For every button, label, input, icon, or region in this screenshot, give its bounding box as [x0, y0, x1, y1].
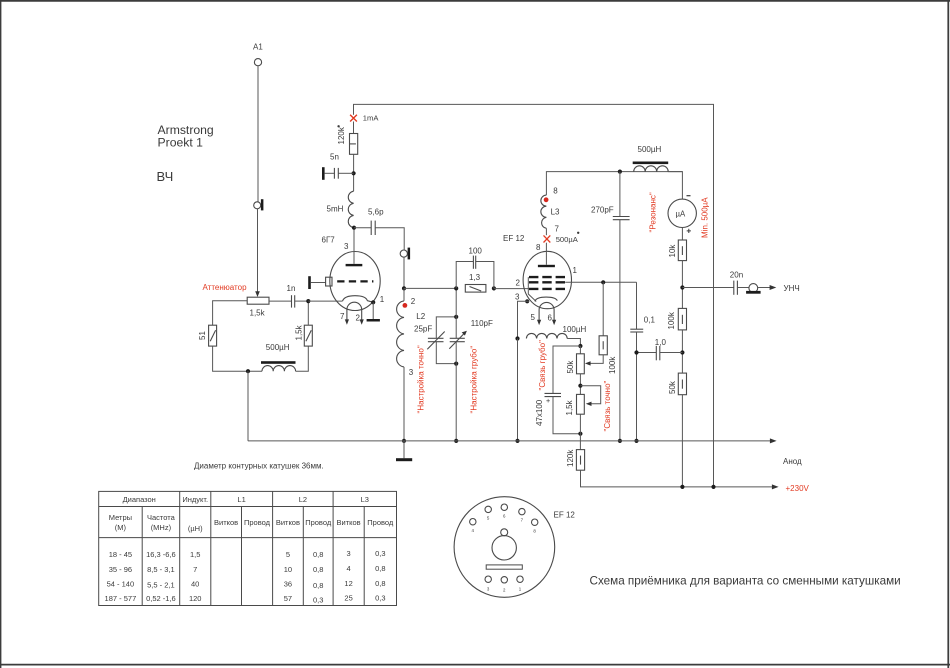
- svg-text:110pF: 110pF: [471, 319, 493, 328]
- svg-text:Частота: Частота: [147, 513, 176, 522]
- junction var caps bottom: [454, 362, 458, 366]
- svg-text:УНЧ: УНЧ: [784, 284, 800, 293]
- junction 5n node: [352, 171, 356, 175]
- wire 1,5k bottom through rail: [579, 414, 581, 449]
- svg-text:Витков: Витков: [337, 518, 361, 527]
- svg-text:1mA: 1mA: [363, 114, 380, 123]
- svg-text:5,6p: 5,6p: [368, 208, 384, 217]
- svg-text:51: 51: [198, 331, 207, 340]
- svg-text:Провод: Провод: [367, 518, 394, 527]
- socket pin 6: [501, 504, 507, 518]
- junction 110pF bottom on rail: [454, 439, 458, 443]
- wire coil to meter: [668, 172, 682, 200]
- svg-text:"Связь грубо": "Связь грубо": [538, 340, 547, 391]
- connector plug on L2 line: [400, 248, 410, 260]
- svg-text:Витков: Витков: [214, 518, 238, 527]
- svg-text:270pF: 270pF: [591, 206, 614, 215]
- svg-text:L1: L1: [237, 495, 245, 504]
- resistor R 100k (screen): [599, 336, 617, 374]
- svg-text:Провод: Провод: [305, 518, 332, 527]
- capacitor C 270pF: [591, 172, 630, 441]
- svg-text:1,5k: 1,5k: [295, 324, 304, 340]
- wire meter to 10k: [681, 228, 683, 241]
- svg-text:6Г7: 6Г7: [322, 236, 336, 245]
- connector plug on antenna line: [254, 199, 264, 210]
- top feed rail from 1mA point: [354, 104, 714, 487]
- svg-text:ВЧ: ВЧ: [157, 169, 174, 184]
- svg-text:10k: 10k: [668, 244, 677, 258]
- wire grid node to EF12: [494, 288, 529, 290]
- grid bracket of EF12: [528, 277, 536, 301]
- wire cathode node to tube: [308, 300, 342, 302]
- svg-text:Схема приёмника для варианта с: Схема приёмника для варианта со сменными…: [590, 575, 901, 588]
- svg-text:50k: 50k: [566, 360, 575, 374]
- wire pin1 node down to screen resistor: [602, 282, 604, 336]
- junction 0,1 top corner node: [601, 280, 605, 284]
- capacitor C 47x100 electrolytic: [535, 393, 561, 426]
- svg-text:16,3 -6,6: 16,3 -6,6: [146, 550, 176, 559]
- wire 50k to +230V rail: [681, 395, 683, 487]
- wire grid cap to square: [311, 282, 326, 284]
- anode rail: [248, 438, 777, 443]
- svg-text:0,52 -1,6: 0,52 -1,6: [146, 594, 176, 603]
- resistor R 1,5k shunt (variable): [295, 324, 313, 346]
- svg-text:0,8: 0,8: [313, 565, 323, 574]
- wire cathode to down lead: [518, 301, 530, 338]
- wire 0,1 branch: [636, 282, 638, 329]
- svg-text:Анод: Анод: [783, 457, 802, 466]
- test point X 1mA: [350, 114, 379, 123]
- svg-text:7: 7: [555, 225, 560, 234]
- svg-text:L3: L3: [551, 208, 560, 217]
- meter M µA: [668, 196, 696, 233]
- wire coil right up to 1,5k shunt: [296, 346, 309, 371]
- grid cap square of 6Г7: [326, 277, 332, 286]
- wire screen resistor to 50k wiper arrow: [585, 355, 603, 366]
- heater of EF12 pins 5 6: [531, 302, 557, 325]
- wire L2 bottom to rail: [403, 367, 405, 441]
- grid dashes of 6Г7: [337, 280, 373, 282]
- svg-text:25pF: 25pF: [414, 325, 432, 334]
- resistor R 120k* (anode load): [337, 125, 358, 154]
- socket EF12 outline: [454, 497, 555, 598]
- svg-text:57: 57: [284, 594, 292, 603]
- svg-text:100k: 100k: [608, 356, 617, 374]
- svg-text:5: 5: [531, 313, 536, 322]
- capacitor C 20n: [730, 270, 743, 295]
- capacitor C 0,1: [630, 316, 655, 333]
- wire 50k to 1,5k: [579, 374, 581, 395]
- test point X 500µA: [544, 232, 580, 244]
- socket pin 2: [501, 577, 507, 593]
- potentiometer R 50k (coupling coarse): [566, 346, 584, 374]
- wire 0,1 to rail: [636, 332, 638, 441]
- svg-text:1,0: 1,0: [655, 338, 667, 347]
- junction grid network left: [454, 286, 458, 290]
- wire wiper link 1,5k: [580, 386, 600, 406]
- junction 270pF bottom on rail: [618, 439, 622, 443]
- resistor R 120k (bias): [566, 449, 585, 471]
- svg-text:500µH: 500µH: [638, 145, 662, 154]
- socket pin 7: [519, 508, 525, 522]
- socket pin 5: [485, 506, 491, 520]
- svg-text:1,5: 1,5: [190, 550, 200, 559]
- svg-text:36: 36: [284, 580, 292, 589]
- wire output node to 20n: [682, 287, 733, 289]
- ground bar at 6Г7 cathode: [367, 302, 380, 321]
- resistor R 1,3 (variable): [465, 273, 486, 292]
- svg-text:"Настройка грубо": "Настройка грубо": [470, 346, 479, 414]
- potentiometer R 1,5k (coupling fine): [565, 394, 585, 415]
- svg-text:A1: A1: [253, 42, 263, 51]
- svg-text:4: 4: [347, 564, 351, 573]
- junction 1,0 node: [680, 350, 684, 354]
- junction 1,0 left: [634, 350, 638, 354]
- resistor R 50k (divider bottom): [668, 373, 687, 395]
- svg-text:187 - 577: 187 - 577: [105, 594, 137, 603]
- svg-text:0,3: 0,3: [313, 596, 323, 605]
- svg-text:Индукт.: Индукт.: [182, 495, 208, 504]
- svg-text:100µH: 100µH: [563, 325, 587, 334]
- svg-text:50k: 50k: [668, 380, 677, 394]
- inductor L2: [397, 288, 426, 367]
- capacitor C 5n with terminal bar: [322, 153, 354, 180]
- wire X to R 120k: [353, 122, 355, 134]
- svg-text:Метры: Метры: [109, 513, 132, 522]
- inductor 500µH (attenuator): [261, 343, 296, 371]
- junction EF12 cathode pin 3: [525, 299, 529, 303]
- wire pot left to R 51: [213, 301, 248, 326]
- resistor R 51 (variable): [198, 325, 217, 346]
- svg-text:500µH: 500µH: [266, 343, 290, 352]
- svg-text:Диаметр контурных катушек 36мм: Диаметр контурных катушек 36мм.: [194, 462, 324, 471]
- wire C 1n to cathode node: [295, 300, 308, 302]
- wire L3 top to screen rail: [546, 172, 682, 196]
- svg-text:54 - 140: 54 - 140: [107, 580, 135, 589]
- socket pin 1: [517, 576, 523, 592]
- wire 47x100 bottom: [553, 397, 580, 434]
- wire 120k to +230V rail: [581, 470, 683, 487]
- junction grid/cathode node: [306, 299, 310, 303]
- +230V rail: [682, 484, 778, 489]
- wire junction down to anode rail: [247, 371, 249, 441]
- svg-text:0,8: 0,8: [375, 564, 385, 573]
- svg-text:µA: µA: [676, 210, 686, 219]
- socket pin 8: [532, 519, 538, 533]
- capacitor C 25pF variable: [427, 317, 456, 364]
- wire A1 down: [257, 66, 259, 202]
- junction 50k top node: [578, 344, 582, 348]
- wire L2 node to 1,3 node: [404, 287, 456, 289]
- svg-text:3: 3: [515, 293, 520, 302]
- wire shunt top to grid node: [307, 301, 309, 325]
- svg-text:8,5 - 3,1: 8,5 - 3,1: [147, 565, 175, 574]
- junction grid network right: [492, 286, 496, 290]
- svg-text:8: 8: [536, 243, 541, 252]
- svg-text:35 - 96: 35 - 96: [109, 565, 132, 574]
- svg-text:L2: L2: [299, 495, 307, 504]
- svg-text:8: 8: [553, 187, 558, 196]
- potentiometer R1 1,5k: [247, 297, 269, 317]
- svg-text:(М): (М): [115, 523, 127, 532]
- junction L2 bottom on rail: [402, 439, 406, 443]
- wire 10k to output node: [681, 261, 683, 309]
- inductor 500µH (meter): [633, 145, 669, 172]
- junction 47x100 bottom: [578, 432, 582, 436]
- wire pin 1 to 0,1 branch: [565, 281, 636, 283]
- svg-text:40: 40: [191, 580, 199, 589]
- wire to УНЧ arrow: [758, 285, 777, 290]
- node A1 antenna terminal: [253, 42, 263, 66]
- wire plug to L2 node: [403, 257, 405, 288]
- svg-text:0,8: 0,8: [375, 579, 385, 588]
- junction attenuator bottom: [246, 369, 250, 373]
- connector output jack: [738, 284, 761, 294]
- capacitor C 100: [456, 247, 494, 289]
- wire R 120k to 5mH: [353, 154, 355, 191]
- svg-text:5n: 5n: [330, 153, 339, 162]
- svg-text:47x100: 47x100: [535, 399, 544, 426]
- svg-text:EF 12: EF 12: [503, 234, 525, 243]
- svg-text:+: +: [546, 396, 550, 405]
- svg-text:L2: L2: [416, 312, 425, 321]
- svg-text:Min. 500µA: Min. 500µA: [700, 197, 709, 238]
- anode of 6Г7: [346, 228, 363, 267]
- svg-text:6: 6: [548, 314, 553, 323]
- junction between pots: [578, 384, 582, 388]
- svg-text:120k: 120k: [566, 449, 575, 467]
- svg-text:0,8: 0,8: [313, 581, 323, 590]
- grid rows of EF12: [529, 277, 565, 289]
- svg-text:Proekt 1: Proekt 1: [158, 136, 204, 150]
- svg-text:10: 10: [284, 565, 292, 574]
- svg-text:2: 2: [411, 297, 416, 306]
- svg-text:18 - 45: 18 - 45: [109, 550, 132, 559]
- svg-text:120k: 120k: [337, 126, 346, 144]
- heater of 6Г7 pins 7 2: [340, 302, 364, 325]
- svg-text:(MHz): (MHz): [151, 523, 172, 532]
- junction 270pF top: [618, 170, 622, 174]
- svg-text:L3: L3: [361, 495, 369, 504]
- svg-text:7: 7: [193, 565, 197, 574]
- inductor 100µH: [526, 325, 586, 339]
- tube U2 EF12 envelope: [523, 251, 571, 308]
- capacitor C 1n: [287, 284, 296, 308]
- capacitor C 110pF variable: [449, 288, 493, 441]
- ground symbol: [396, 441, 412, 461]
- resistor R 10k: [668, 240, 687, 261]
- junction 0,1 bottom on rail: [634, 439, 638, 443]
- wire to 47x100: [553, 346, 580, 393]
- svg-text:1,5k: 1,5k: [250, 309, 266, 318]
- svg-text:5mH: 5mH: [327, 205, 344, 214]
- svg-text:1,3: 1,3: [469, 273, 481, 282]
- svg-text:1: 1: [573, 266, 578, 275]
- junction L2 top node: [402, 286, 406, 290]
- wire 51 bottom to bottom link: [213, 346, 262, 371]
- svg-text:100k: 100k: [667, 311, 676, 329]
- svg-text:5: 5: [286, 550, 290, 559]
- svg-text:"Резонанс": "Резонанс": [649, 192, 658, 232]
- wire with arrow to attenuator wiper: [255, 209, 260, 297]
- svg-text:0,1: 0,1: [644, 316, 656, 325]
- svg-text:3: 3: [347, 549, 351, 558]
- svg-text:"Настройка точно": "Настройка точно": [417, 345, 426, 413]
- wire 100µH to 50k pot: [567, 339, 580, 347]
- capacitor C 1,0: [637, 338, 683, 361]
- svg-text:1n: 1n: [287, 284, 296, 293]
- table data rows: [105, 549, 386, 605]
- wire C 5,6p to L2 top: [375, 228, 404, 250]
- svg-text:100: 100: [469, 247, 483, 256]
- table header row 2: [109, 513, 394, 533]
- resistor R 100k (divider top): [667, 308, 687, 330]
- svg-text:0,3: 0,3: [375, 549, 385, 558]
- svg-text:3: 3: [409, 368, 414, 377]
- svg-text:25: 25: [344, 594, 352, 603]
- svg-text:3: 3: [344, 242, 349, 251]
- junction var caps top: [454, 315, 458, 319]
- socket pin 4: [470, 519, 476, 533]
- capacitor C 5,6p: [354, 208, 384, 236]
- anode of EF12: [538, 243, 555, 267]
- svg-text:Провод: Провод: [244, 518, 271, 527]
- svg-text:2: 2: [516, 279, 521, 288]
- svg-text:"Связь точно": "Связь точно": [603, 380, 612, 431]
- svg-text:(µН): (µН): [188, 524, 203, 533]
- svg-text:+230V: +230V: [786, 484, 810, 493]
- svg-text:Диапазон: Диапазон: [123, 495, 156, 504]
- tube U1 6Г7 envelope: [330, 252, 380, 311]
- socket center key: [486, 529, 522, 569]
- svg-text:5,5 - 2,1: 5,5 - 2,1: [147, 581, 175, 590]
- junction feed line on +230V: [711, 485, 715, 489]
- cathode arc of 6Г7: [343, 296, 374, 303]
- inductor 5mH: [327, 191, 354, 227]
- svg-text:Витков: Витков: [276, 518, 300, 527]
- inductor L3: [541, 195, 560, 235]
- wire pot right to C 1n: [269, 300, 291, 302]
- socket pin 3: [485, 576, 491, 592]
- svg-text:1: 1: [380, 295, 385, 304]
- svg-text:2: 2: [356, 314, 361, 323]
- svg-text:500µA: 500µA: [556, 235, 579, 244]
- junction anode node 6Г7: [352, 226, 356, 230]
- svg-text:12: 12: [344, 579, 352, 588]
- svg-text:1,5k: 1,5k: [565, 399, 574, 415]
- cathode arc of EF12: [535, 297, 558, 301]
- wire 100k to 1,0 node: [681, 330, 683, 373]
- svg-text:0,3: 0,3: [375, 594, 385, 603]
- svg-text:20n: 20n: [730, 270, 743, 279]
- pin 1 junction of 6Г7: [371, 300, 375, 304]
- svg-text:Аттенюатор: Аттенюатор: [203, 283, 248, 292]
- table header row 1: [123, 495, 369, 504]
- winding table: [99, 491, 397, 605]
- title text: [157, 123, 214, 184]
- junction 50k bottom on +230V: [680, 485, 684, 489]
- grid cap terminal bar of 6Г7: [308, 276, 311, 289]
- svg-text:120: 120: [189, 594, 202, 603]
- junction 100µH left: [515, 336, 519, 340]
- wire cathode lead to rail: [517, 339, 519, 441]
- svg-text:0,8: 0,8: [313, 550, 323, 559]
- junction cathode lead on rail: [515, 439, 519, 443]
- svg-text:7: 7: [340, 312, 345, 321]
- junction output node: [680, 285, 684, 289]
- svg-text:EF 12: EF 12: [554, 511, 576, 520]
